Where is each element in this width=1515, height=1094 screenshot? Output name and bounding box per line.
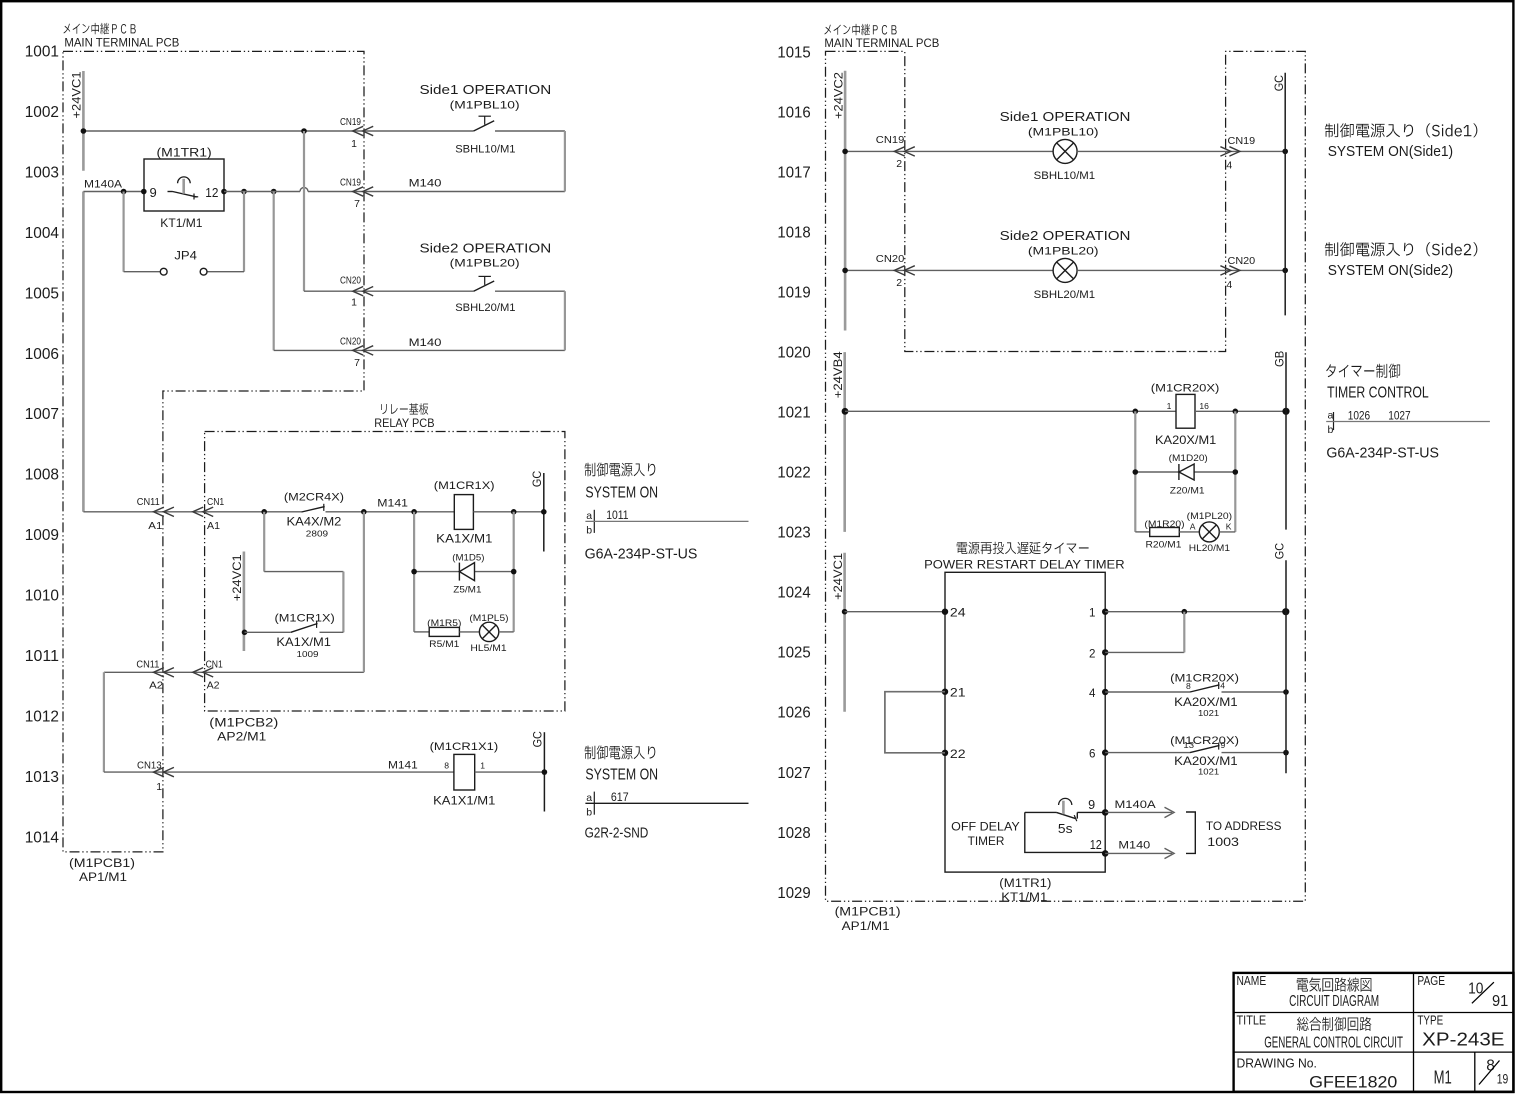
junction at rail row1002 xyxy=(81,128,87,134)
svg-text:1014: 1014 xyxy=(25,829,59,846)
label 制御電源入り (row1009) xyxy=(585,463,656,477)
label メイン中継PCB right xyxy=(824,24,896,36)
label タイマー制御 xyxy=(1326,364,1400,379)
junction rail row1018 xyxy=(842,268,848,274)
title block row line 2 xyxy=(1234,1051,1514,1053)
svg-text:CN13: CN13 xyxy=(137,759,162,771)
svg-text:1028: 1028 xyxy=(777,825,810,842)
svg-text:G2R-2-SND: G2R-2-SND xyxy=(585,825,649,841)
svg-text:PAGE: PAGE xyxy=(1417,973,1445,988)
wire vert x304 1002-1005 xyxy=(303,131,305,291)
svg-text:M141: M141 xyxy=(388,760,418,772)
wire pin1 row xyxy=(1105,611,1286,613)
svg-text:(M1CR1X): (M1CR1X) xyxy=(434,480,495,492)
wire right return rail seg2 xyxy=(564,291,566,350)
svg-text:SBHL20/M1: SBHL20/M1 xyxy=(1034,289,1095,301)
svg-text:b: b xyxy=(1328,424,1334,436)
junction seal contact xyxy=(242,630,248,636)
lamp HL5/M1 (M1PL5) xyxy=(479,622,498,641)
svg-text:MAIN TERMINAL PCB: MAIN TERMINAL PCB xyxy=(824,36,939,50)
junction pin 24 xyxy=(942,609,948,615)
label リレー基板 xyxy=(381,403,428,415)
svg-text:(M1PBL10): (M1PBL10) xyxy=(1028,127,1099,139)
svg-text:KT1/M1: KT1/M1 xyxy=(1001,890,1047,904)
svg-text:1020: 1020 xyxy=(777,345,810,362)
svg-text:A2: A2 xyxy=(207,679,220,691)
junction row1009 A2 branch xyxy=(361,509,367,515)
junction diode20 L xyxy=(1133,469,1139,475)
svg-text:SBHL10/M1: SBHL10/M1 xyxy=(455,143,515,155)
title block frame xyxy=(1234,973,1514,1092)
svg-text:1013: 1013 xyxy=(25,769,59,786)
power rail +24VC1 stub xyxy=(243,552,246,652)
svg-text:AP2/M1: AP2/M1 xyxy=(217,730,266,744)
svg-text:GC: GC xyxy=(1272,542,1286,559)
label 制御電源入り（Side2） xyxy=(1325,242,1478,256)
wire diode branch left vert xyxy=(413,512,415,632)
svg-text:1006: 1006 xyxy=(25,346,59,363)
svg-text:CN19: CN19 xyxy=(876,134,905,146)
wire pin6 row a xyxy=(1105,752,1190,754)
svg-text:M140A: M140A xyxy=(1115,799,1157,811)
svg-text:KA20X/M1: KA20X/M1 xyxy=(1155,433,1217,447)
svg-text:1017: 1017 xyxy=(777,164,810,181)
svg-text:1010: 1010 xyxy=(25,588,59,605)
wire vert x273 1003-1006 xyxy=(273,192,275,351)
svg-text:19: 19 xyxy=(1497,1072,1509,1087)
svg-text:1018: 1018 xyxy=(777,224,810,241)
svg-text:1021: 1021 xyxy=(777,405,810,422)
svg-text:1: 1 xyxy=(1089,607,1095,620)
svg-text:DRAWING No.: DRAWING No. xyxy=(1237,1055,1317,1070)
svg-text:(M1CR20X): (M1CR20X) xyxy=(1170,735,1239,747)
svg-text:R5/M1: R5/M1 xyxy=(429,639,459,650)
wire res20 row a xyxy=(1135,531,1149,533)
svg-text:G6A-234P-ST-US: G6A-234P-ST-US xyxy=(585,546,698,562)
net GC bar (row1013) xyxy=(543,732,545,811)
connector CN20 pin1 arrow xyxy=(353,287,364,296)
junction GC row1009 xyxy=(541,509,547,515)
svg-text:2: 2 xyxy=(896,277,902,289)
svg-text:Z20/M1: Z20/M1 xyxy=(1170,486,1205,497)
svg-text:Side2 OPERATION: Side2 OPERATION xyxy=(420,241,552,255)
svg-text:(M1PBL10): (M1PBL10) xyxy=(450,99,520,111)
resistor R20/M1 (M1R20) xyxy=(1150,528,1180,537)
jumper JP4 terminals xyxy=(160,268,167,275)
wire seal branch down2 xyxy=(342,572,344,633)
svg-text:KA1X1/M1: KA1X1/M1 xyxy=(433,794,496,808)
relay coil M1CR1X xyxy=(454,495,473,530)
svg-text:(M1CR1X1): (M1CR1X1) xyxy=(430,741,499,753)
junction pin 9t xyxy=(1102,809,1109,816)
svg-text:CN19: CN19 xyxy=(1228,135,1256,147)
wire row1018 left xyxy=(845,269,1053,271)
svg-text:+24VB4: +24VB4 xyxy=(831,351,845,398)
svg-text:GC: GC xyxy=(531,731,545,748)
contact M2CR4X blade xyxy=(302,507,325,512)
svg-text:CN11: CN11 xyxy=(137,496,160,508)
svg-text:SBHL20/M1: SBHL20/M1 xyxy=(455,302,515,314)
svg-text:KA1X/M1: KA1X/M1 xyxy=(436,531,493,545)
wire hop over x304 xyxy=(300,188,308,192)
svg-text:Z5/M1: Z5/M1 xyxy=(453,585,481,596)
svg-text:2809: 2809 xyxy=(306,529,329,539)
wire row1021 b xyxy=(1195,410,1286,412)
net GC rail 2 xyxy=(1285,560,1287,773)
svg-text:TITLE: TITLE xyxy=(1237,1012,1267,1027)
svg-text:24: 24 xyxy=(950,607,966,620)
svg-text:7: 7 xyxy=(354,357,360,369)
PCB outline AP1/M1 main terminal PCB (dash-dot) xyxy=(63,51,364,852)
junction row1009 diode branch L xyxy=(411,509,417,515)
svg-text:KA4X/M2: KA4X/M2 xyxy=(287,515,342,529)
connector CN13 arrow xyxy=(153,767,164,776)
junction GB row1021 xyxy=(1282,408,1289,415)
svg-text:1024: 1024 xyxy=(777,585,810,602)
wire pin6 row b xyxy=(1222,752,1287,754)
label 電源再投入遅延タイマー xyxy=(957,542,1089,555)
svg-text:A1: A1 xyxy=(207,520,220,532)
svg-text:(M1D20): (M1D20) xyxy=(1169,453,1208,464)
svg-text:(M1PCB1): (M1PCB1) xyxy=(69,856,135,870)
connector CN11 A2 arrow xyxy=(153,668,164,677)
wire res20 row b xyxy=(1179,531,1199,533)
arrow M140 xyxy=(1165,848,1175,858)
svg-text:1003: 1003 xyxy=(1207,835,1239,849)
diode Z5/M1 (M1D5) xyxy=(458,563,460,581)
svg-text:2: 2 xyxy=(1089,647,1095,660)
wire seal contact right xyxy=(320,631,344,633)
svg-text:TIMER CONTROL: TIMER CONTROL xyxy=(1327,384,1429,401)
wire res row c xyxy=(499,631,514,633)
svg-text:CN19: CN19 xyxy=(340,116,361,128)
title block col line c xyxy=(1474,1052,1476,1092)
wire row1003 box to hop xyxy=(224,191,300,193)
svg-text:+24VC1: +24VC1 xyxy=(831,553,845,600)
svg-text:CN19: CN19 xyxy=(340,176,361,188)
svg-text:(M1CR1X): (M1CR1X) xyxy=(275,612,336,624)
wire res row b xyxy=(459,631,479,633)
svg-text:a: a xyxy=(586,510,592,522)
svg-text:SBHL10/M1: SBHL10/M1 xyxy=(1034,170,1095,182)
power rail +24VC1 xyxy=(82,71,85,171)
wire row1009 rail to contact xyxy=(83,511,301,513)
svg-text:M140: M140 xyxy=(409,337,442,349)
wire jp4 right drop xyxy=(243,192,245,272)
wire pin2 riser xyxy=(1183,612,1185,653)
junction diode L xyxy=(411,569,417,575)
svg-text:(M1R5): (M1R5) xyxy=(427,618,461,629)
label 制御電源入り（Side1） xyxy=(1325,123,1478,137)
wire pin4 row b xyxy=(1222,691,1287,693)
svg-text:a: a xyxy=(1328,409,1334,421)
svg-text:1019: 1019 xyxy=(777,284,810,301)
wire row1002 rail to switch xyxy=(83,130,473,132)
svg-text:CIRCUIT DIAGRAM: CIRCUIT DIAGRAM xyxy=(1289,993,1379,1010)
svg-text:1027: 1027 xyxy=(777,765,810,782)
junction pin 6t xyxy=(1102,749,1108,755)
svg-text:(M1PCB2): (M1PCB2) xyxy=(209,715,278,729)
svg-text:KA20X/M1: KA20X/M1 xyxy=(1174,695,1238,709)
junction pin 12t xyxy=(1102,850,1109,857)
svg-text:CN1: CN1 xyxy=(206,658,223,670)
wire row1016 left xyxy=(845,150,1053,152)
junction pin 1t xyxy=(1102,609,1108,615)
wire row1016 right xyxy=(1077,150,1285,152)
junction pin9 xyxy=(141,189,147,195)
label 総合制御回路 xyxy=(1297,1017,1372,1031)
timer 5s contact xyxy=(1056,812,1075,818)
junction GC pin6 xyxy=(1283,750,1289,756)
junction pin 2t xyxy=(1102,649,1108,655)
wire row1013 right xyxy=(475,771,545,773)
svg-text:(M1TR1): (M1TR1) xyxy=(999,876,1051,890)
svg-text:(M1PBL20): (M1PBL20) xyxy=(1028,245,1099,257)
svg-text:POWER RESTART DELAY TIMER: POWER RESTART DELAY TIMER xyxy=(924,558,1125,572)
svg-text:+24VC1: +24VC1 xyxy=(230,554,244,601)
svg-text:M1: M1 xyxy=(1434,1067,1452,1088)
title block row line 1 xyxy=(1234,1012,1514,1014)
junction pin 22 xyxy=(942,750,948,756)
wire M140 out xyxy=(1105,852,1172,854)
svg-text:SYSTEM ON: SYSTEM ON xyxy=(585,484,658,501)
wire A2 riser xyxy=(363,512,365,673)
svg-text:(M1TR1): (M1TR1) xyxy=(157,145,212,159)
relay coil M1CR1X1 xyxy=(454,754,475,790)
svg-text:(M1R20): (M1R20) xyxy=(1144,519,1184,530)
connector CN20 pin7 arrow xyxy=(353,346,364,355)
wire pin4 row a xyxy=(1105,691,1190,693)
junction row1002 x304 xyxy=(301,128,307,134)
connector CN1 A1 arrow xyxy=(193,507,204,516)
svg-text:CN20: CN20 xyxy=(340,335,361,347)
power rail +24VC2 xyxy=(844,71,847,331)
connector CN19 pin1 arrow xyxy=(353,126,364,135)
pushbutton SBHL20/M1 (M1PBL20) xyxy=(474,281,495,291)
svg-text:CN1: CN1 xyxy=(207,496,224,508)
wire row1011 xyxy=(104,671,364,673)
junction GC pin1 xyxy=(1282,608,1289,615)
svg-text:1: 1 xyxy=(1167,401,1172,411)
wire rail to pin24 xyxy=(845,611,945,613)
junction pin12 xyxy=(221,189,227,195)
wire row1009 contact to coil xyxy=(326,511,455,513)
timer box M1TR1 xyxy=(144,159,224,211)
connector CN1 A2 arrow xyxy=(193,668,204,677)
svg-text:10: 10 xyxy=(1468,981,1484,998)
junction GC pin4 xyxy=(1283,689,1289,695)
label メイン中継PCB xyxy=(64,23,136,35)
svg-text:4: 4 xyxy=(1226,279,1232,291)
junction diode20 R xyxy=(1233,469,1239,475)
junction GC row1013 xyxy=(542,769,548,775)
svg-text:(M1D5): (M1D5) xyxy=(452,553,484,564)
svg-text:Side1 OPERATION: Side1 OPERATION xyxy=(1000,110,1131,124)
svg-text:OFF DELAY: OFF DELAY xyxy=(951,820,1020,834)
svg-text:A1: A1 xyxy=(148,520,162,532)
svg-text:Side1 OPERATION: Side1 OPERATION xyxy=(420,83,552,97)
wire diode20 row b xyxy=(1194,471,1235,473)
sheet slash xyxy=(1479,1061,1500,1085)
wire seal contact left xyxy=(245,631,291,633)
svg-text:91: 91 xyxy=(1492,993,1508,1010)
junction pin 4t xyxy=(1102,689,1108,695)
connector CN19 pin7 arrow xyxy=(353,187,364,196)
svg-text:12: 12 xyxy=(205,185,218,200)
svg-text:1009: 1009 xyxy=(297,649,319,659)
power rail +24VB4 xyxy=(843,352,846,532)
junction jp4 right branch xyxy=(241,189,247,195)
junction row1009 diode branch R xyxy=(511,509,517,515)
net GB rail xyxy=(1285,352,1287,529)
svg-text:12: 12 xyxy=(1090,838,1102,852)
svg-text:1016: 1016 xyxy=(777,104,810,121)
contact M1CR20X 13-9 xyxy=(1190,745,1220,752)
svg-text:A2: A2 xyxy=(149,679,163,691)
connector CN20 pin4 arrow xyxy=(1229,266,1240,275)
junction GC row1016 xyxy=(1282,149,1288,155)
svg-text:M141: M141 xyxy=(377,498,408,510)
svg-text:1011: 1011 xyxy=(606,509,628,522)
svg-text:21: 21 xyxy=(950,687,966,700)
timer contact symbol (M1TR1) xyxy=(168,191,173,193)
svg-text:b: b xyxy=(586,525,592,537)
svg-text:1005: 1005 xyxy=(25,285,59,302)
wire right return rail seg1 xyxy=(564,131,566,192)
bracket to-address xyxy=(1186,812,1195,853)
svg-text:G6A-234P-ST-US: G6A-234P-ST-US xyxy=(1326,445,1439,461)
wire res20 row c xyxy=(1219,531,1235,533)
wire row1021 a xyxy=(845,410,1176,412)
contact M1CR1X blade (seal) xyxy=(291,624,318,633)
svg-text:RELAY PCB: RELAY PCB xyxy=(374,416,434,430)
svg-text:JP4: JP4 xyxy=(174,248,197,262)
lamp SBHL10/M1 (M1PBL10) right xyxy=(1053,139,1077,163)
svg-text:1026: 1026 xyxy=(777,705,810,722)
wire row1005 xyxy=(304,290,474,292)
svg-text:A: A xyxy=(1190,522,1196,532)
PCB outline AP1/M1 right (dash-dot) xyxy=(826,51,1306,901)
svg-text:4: 4 xyxy=(1226,160,1232,172)
svg-text:+24VC1: +24VC1 xyxy=(70,71,84,118)
svg-text:KA1X/M1: KA1X/M1 xyxy=(276,635,331,649)
timer box M1TR1 (right) xyxy=(945,572,1105,872)
connector CN19 pin4 arrow xyxy=(1229,147,1240,156)
page slash xyxy=(1472,982,1494,1003)
wire row1018 right xyxy=(1077,269,1285,271)
svg-text:1021: 1021 xyxy=(1198,708,1219,718)
svg-text:MAIN TERMINAL PCB: MAIN TERMINAL PCB xyxy=(64,36,179,50)
svg-text:(M2CR4X): (M2CR4X) xyxy=(284,492,344,504)
svg-text:TIMER: TIMER xyxy=(968,834,1005,848)
pushbutton SBHL10/M1 (M1PBL10) xyxy=(474,121,495,131)
junction rail P24 xyxy=(842,609,848,615)
junction row1021 L xyxy=(1133,409,1139,415)
title block col line b xyxy=(1413,1052,1415,1092)
svg-text:GC: GC xyxy=(530,470,544,487)
svg-text:16: 16 xyxy=(1199,401,1209,411)
svg-text:K: K xyxy=(1226,522,1232,532)
svg-text:1: 1 xyxy=(156,781,162,793)
svg-text:CN20: CN20 xyxy=(876,253,905,265)
svg-text:TYPE: TYPE xyxy=(1417,1012,1443,1027)
svg-text:1004: 1004 xyxy=(25,225,59,242)
svg-text:NAME: NAME xyxy=(1237,973,1267,988)
svg-text:2: 2 xyxy=(896,158,902,170)
connector CN20 pin2 arrow xyxy=(894,266,905,275)
svg-text:M140: M140 xyxy=(409,178,442,190)
wire 1021 branch L vert xyxy=(1134,411,1136,532)
wire jumper 21-22 xyxy=(885,692,945,753)
relay coil M1CR20X xyxy=(1176,394,1195,428)
svg-text:1025: 1025 xyxy=(777,645,810,662)
wire jp4 left drop xyxy=(122,192,124,272)
svg-text:22: 22 xyxy=(950,748,966,761)
junction pin1-pin2 link xyxy=(1182,609,1188,615)
svg-text:5s: 5s xyxy=(1058,822,1073,836)
svg-text:1015: 1015 xyxy=(777,44,810,61)
svg-text:a: a xyxy=(586,792,592,804)
PCB outline AP2/M1 relay PCB (dash-dot) xyxy=(205,432,565,712)
junction rail row1016 xyxy=(842,149,848,155)
svg-text:SYSTEM ON(Side2): SYSTEM ON(Side2) xyxy=(1328,262,1453,279)
svg-text:M140A: M140A xyxy=(84,178,123,190)
lamp HL20/M1 (M1PL20) xyxy=(1199,522,1219,542)
svg-text:(M1CR20X): (M1CR20X) xyxy=(1151,382,1220,394)
lamp SBHL20/M1 (M1PBL20) right xyxy=(1053,258,1077,282)
label 電気回路線図 xyxy=(1297,977,1372,991)
svg-text:(M1PCB1): (M1PCB1) xyxy=(835,905,901,919)
junction rail row1021 xyxy=(842,408,849,415)
svg-text:GENERAL CONTROL CIRCUIT: GENERAL CONTROL CIRCUIT xyxy=(1264,1034,1403,1051)
svg-text:4: 4 xyxy=(1089,687,1096,700)
svg-text:GB: GB xyxy=(1272,351,1286,367)
svg-text:HL5/M1: HL5/M1 xyxy=(470,643,506,654)
svg-text:1: 1 xyxy=(480,761,485,771)
wire pin2 row xyxy=(1105,651,1184,653)
svg-text:1001: 1001 xyxy=(25,44,59,61)
label 制御電源入り (row1013) xyxy=(585,745,656,759)
wire 5s contact lead xyxy=(1025,811,1057,813)
svg-text:1026: 1026 xyxy=(1348,409,1371,422)
wire diode20 row a xyxy=(1135,471,1179,473)
wire row1003 hop to rail xyxy=(308,191,565,193)
timer 5s box xyxy=(1025,812,1105,852)
svg-text:CN11: CN11 xyxy=(136,658,159,670)
svg-text:CN20: CN20 xyxy=(340,275,361,287)
svg-text:1: 1 xyxy=(351,297,357,309)
svg-text:Side2 OPERATION: Side2 OPERATION xyxy=(1000,229,1131,243)
svg-text:M140: M140 xyxy=(1118,840,1150,852)
wire coil to GC xyxy=(473,511,543,513)
power rail +24VC1 right xyxy=(843,553,846,712)
svg-text:GC: GC xyxy=(1272,75,1286,92)
wire seal branch horiz xyxy=(264,571,343,573)
wire diode row right xyxy=(475,571,514,573)
net GC bar (row1009) xyxy=(543,473,545,552)
svg-text:1022: 1022 xyxy=(777,465,810,482)
svg-text:CN20: CN20 xyxy=(1228,255,1256,267)
svg-text:1011: 1011 xyxy=(25,648,59,665)
title block col line a xyxy=(1413,973,1415,1052)
svg-text:9: 9 xyxy=(1088,798,1095,812)
svg-text:AP1/M1: AP1/M1 xyxy=(842,919,890,933)
svg-text:6: 6 xyxy=(1089,748,1095,761)
svg-text:R20/M1: R20/M1 xyxy=(1146,540,1182,551)
svg-text:AP1/M1: AP1/M1 xyxy=(79,870,127,884)
svg-text:1003: 1003 xyxy=(25,164,59,181)
svg-text:GFEE1820: GFEE1820 xyxy=(1309,1074,1397,1092)
